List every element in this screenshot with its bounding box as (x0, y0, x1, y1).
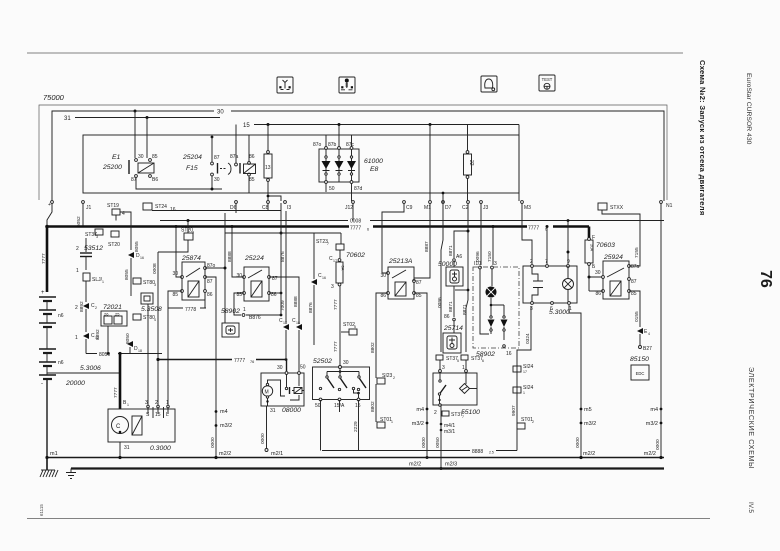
svg-text:25874: 25874 (181, 255, 201, 262)
svg-text:2: 2 (75, 305, 78, 311)
svg-text:30: 30 (214, 177, 220, 183)
svg-text:m4: m4 (650, 407, 658, 413)
svg-text:5.3006: 5.3006 (80, 365, 101, 372)
svg-text:87: 87 (631, 279, 637, 285)
svg-text:30: 30 (236, 273, 242, 279)
svg-text:87: 87 (416, 280, 422, 286)
svg-text:2: 2 (393, 376, 395, 380)
svg-text:m2/2: m2/2 (219, 451, 231, 457)
svg-text:+: + (41, 290, 45, 296)
svg-text:30: 30 (277, 365, 283, 371)
svg-text:8871: 8871 (448, 301, 454, 312)
svg-text:I3: I3 (287, 205, 291, 211)
svg-text:25: 25 (115, 312, 120, 317)
svg-text:61000: 61000 (364, 158, 383, 165)
svg-text:87o: 87o (313, 142, 322, 148)
svg-text:50: 50 (315, 403, 321, 409)
svg-text:3: 3 (331, 284, 334, 290)
svg-text:M: M (265, 390, 269, 396)
svg-text:17: 17 (283, 321, 287, 325)
svg-text:m4: m4 (416, 407, 424, 413)
svg-text:85150: 85150 (630, 356, 649, 363)
svg-text:0000: 0000 (655, 439, 661, 450)
svg-text:2.5: 2.5 (489, 451, 494, 455)
svg-text:7777: 7777 (333, 299, 339, 310)
svg-text:7777: 7777 (350, 226, 361, 232)
svg-text:0000: 0000 (210, 437, 216, 448)
svg-text:0000: 0000 (575, 437, 581, 448)
svg-text:M3: M3 (524, 205, 531, 211)
svg-text:3: 3 (154, 283, 156, 287)
svg-text:0050: 0050 (435, 437, 441, 448)
svg-text:0000: 0000 (260, 433, 266, 444)
svg-text:B27: B27 (643, 346, 652, 352)
svg-text:18: 18 (296, 321, 300, 325)
svg-text:8892: 8892 (95, 329, 101, 340)
svg-text:86: 86 (249, 154, 255, 160)
svg-text:8802: 8802 (370, 342, 376, 353)
svg-text:2: 2 (434, 410, 437, 416)
svg-text:25213A: 25213A (388, 258, 413, 265)
svg-text:16: 16 (322, 276, 326, 280)
svg-text:5A: 5A (341, 266, 346, 271)
svg-text:3: 3 (442, 365, 445, 371)
svg-text:85: 85 (152, 154, 158, 160)
svg-text:7778: 7778 (185, 307, 196, 313)
svg-text:8055: 8055 (134, 241, 140, 252)
svg-text:50: 50 (329, 186, 335, 192)
svg-text:8888: 8888 (472, 449, 483, 455)
svg-text:31: 31 (64, 116, 71, 122)
svg-text:13: 13 (265, 165, 271, 171)
svg-text:4: 4 (154, 318, 156, 322)
svg-text:7150: 7150 (487, 251, 493, 262)
svg-text:18: 18 (138, 349, 142, 353)
svg-text:20000: 20000 (65, 380, 85, 387)
svg-text:75000: 75000 (43, 93, 65, 102)
svg-text:8876: 8876 (308, 302, 314, 313)
svg-text:3: 3 (530, 306, 533, 312)
svg-text:L: L (166, 412, 169, 418)
svg-text:25924: 25924 (603, 254, 623, 261)
svg-text:2: 2 (76, 246, 79, 252)
svg-text:n6: n6 (58, 360, 64, 366)
svg-text:86: 86 (444, 314, 450, 320)
svg-text:B6: B6 (152, 177, 158, 183)
svg-text:8802: 8802 (370, 401, 376, 412)
svg-text:EuroStar CURSOR 430: EuroStar CURSOR 430 (745, 73, 752, 145)
svg-text:53512: 53512 (84, 245, 103, 252)
svg-text:9907: 9907 (511, 405, 517, 416)
svg-text:2: 2 (95, 306, 97, 310)
svg-text:0324: 0324 (525, 333, 531, 344)
svg-text:85: 85 (172, 292, 178, 298)
svg-text:87a: 87a (631, 264, 640, 270)
svg-text:17: 17 (523, 370, 527, 374)
svg-text:8050: 8050 (125, 333, 131, 344)
svg-text:A6: A6 (456, 254, 462, 260)
svg-text:ST20: ST20 (108, 242, 120, 248)
svg-text:30: 30 (380, 273, 386, 279)
svg-text:1: 1 (75, 335, 78, 341)
svg-text:70603: 70603 (596, 242, 615, 249)
svg-text:6: 6 (482, 359, 484, 363)
svg-text:85: 85 (416, 293, 422, 299)
svg-text:87: 87 (214, 155, 220, 161)
svg-text:61115: 61115 (39, 504, 44, 516)
svg-text:9: 9 (567, 259, 570, 265)
svg-text:ЭЛЕКТРИЧЕСКИЕ СХЕМЫ: ЭЛЕКТРИЧЕСКИЕ СХЕМЫ (747, 367, 756, 469)
svg-text:15: 15 (355, 403, 361, 409)
svg-text:7777: 7777 (113, 387, 119, 398)
svg-text:B876: B876 (249, 315, 261, 321)
svg-text:m2/2: m2/2 (409, 462, 421, 468)
svg-text:30: 30 (172, 271, 178, 277)
svg-text:86: 86 (207, 292, 213, 298)
svg-text:25224: 25224 (244, 255, 264, 262)
svg-text:0096: 0096 (437, 297, 443, 308)
svg-text:7009: 7009 (280, 300, 286, 311)
svg-text:16: 16 (140, 256, 144, 260)
svg-text:5: 5 (354, 325, 356, 329)
svg-text:26: 26 (104, 312, 109, 317)
svg-text:87b: 87b (328, 142, 337, 148)
svg-text:30: 30 (217, 110, 224, 116)
svg-text:08000: 08000 (282, 407, 301, 414)
svg-text:E1: E1 (112, 154, 121, 161)
svg-text:F15: F15 (186, 165, 198, 172)
svg-text:0155: 0155 (634, 311, 640, 322)
svg-text:m2/2: m2/2 (583, 451, 595, 457)
svg-text:8876: 8876 (280, 251, 286, 262)
svg-text:50: 50 (300, 365, 306, 371)
svg-text:ST24: ST24 (155, 204, 167, 210)
svg-text:8871: 8871 (448, 245, 454, 256)
svg-text:70602: 70602 (346, 252, 365, 259)
svg-text:16: 16 (170, 207, 176, 213)
svg-text:1: 1 (523, 391, 525, 395)
svg-text:0008: 0008 (152, 263, 158, 274)
svg-text:7155: 7155 (634, 247, 640, 258)
svg-text:7: 7 (545, 259, 548, 265)
svg-text:3: 3 (494, 261, 497, 267)
svg-text:76: 76 (757, 270, 774, 288)
svg-text:5.3508: 5.3508 (141, 306, 162, 313)
svg-text:1: 1 (102, 280, 104, 284)
svg-text:C9: C9 (406, 205, 413, 211)
svg-text:86: 86 (380, 293, 386, 299)
svg-text:J1: J1 (86, 205, 92, 211)
svg-text:25714: 25714 (443, 325, 463, 332)
svg-text:J3: J3 (483, 205, 489, 211)
svg-text:87a: 87a (230, 154, 239, 160)
svg-text:7: 7 (327, 242, 329, 246)
svg-text:m2/3: m2/3 (445, 462, 457, 468)
svg-text:C: C (116, 424, 121, 430)
svg-text:m3/2: m3/2 (220, 423, 232, 429)
svg-text:7777: 7777 (333, 341, 339, 352)
svg-text:85: 85 (249, 177, 255, 183)
svg-text:30: 30 (138, 154, 144, 160)
svg-text:3: 3 (96, 235, 98, 239)
svg-text:52502: 52502 (313, 358, 332, 365)
svg-text:m2/1: m2/1 (271, 451, 283, 457)
svg-text:25200: 25200 (102, 164, 122, 171)
svg-text:30: 30 (343, 360, 349, 366)
svg-text:-: - (41, 381, 43, 387)
svg-text:2: 2 (530, 259, 533, 265)
svg-text:58902: 58902 (221, 308, 240, 315)
svg-text:2: 2 (532, 420, 534, 424)
svg-text:m3/2: m3/2 (412, 421, 424, 427)
svg-text:85: 85 (631, 291, 637, 297)
svg-text:87: 87 (207, 279, 213, 285)
svg-text:Схема №2: Запуск из отсека дви: Схема №2: Запуск из отсека двигателя (698, 60, 707, 216)
svg-text:8888: 8888 (293, 296, 299, 307)
svg-text:TEST: TEST (542, 77, 553, 82)
svg-text:86: 86 (595, 291, 601, 297)
svg-text:5.3000: 5.3000 (549, 309, 570, 316)
svg-text:0000: 0000 (421, 437, 427, 448)
svg-text:7777: 7777 (528, 226, 539, 232)
svg-text:J12: J12 (345, 205, 353, 211)
svg-text:m3/1: m3/1 (444, 429, 455, 435)
svg-text:72021: 72021 (103, 304, 122, 311)
svg-text:m2/2: m2/2 (644, 451, 656, 457)
svg-text:m5: m5 (584, 407, 592, 413)
svg-text:1: 1 (76, 268, 79, 274)
svg-text:30: 30 (595, 270, 601, 276)
svg-text:0.3000: 0.3000 (150, 445, 171, 452)
svg-text:8871: 8871 (462, 304, 468, 315)
svg-text:D7: D7 (445, 205, 452, 211)
svg-text:76: 76 (250, 360, 254, 364)
svg-text:7: 7 (462, 415, 464, 419)
svg-text:1: 1 (243, 307, 246, 313)
svg-text:25204: 25204 (182, 154, 202, 161)
svg-text:1: 1 (127, 403, 129, 407)
svg-text:15: 15 (243, 123, 250, 129)
svg-text:ST19: ST19 (107, 203, 119, 209)
svg-text:6: 6 (367, 228, 369, 232)
svg-text:STXX: STXX (610, 205, 624, 211)
svg-text:5: 5 (457, 359, 459, 363)
svg-text:4: 4 (648, 332, 650, 336)
svg-text:31: 31 (124, 445, 130, 451)
svg-text:20A: 20A (590, 244, 595, 251)
svg-text:31: 31 (270, 408, 276, 414)
svg-text:22: 22 (468, 160, 474, 166)
svg-text:7777: 7777 (41, 253, 47, 264)
svg-text:7777: 7777 (234, 358, 245, 364)
svg-text:n6: n6 (58, 313, 64, 319)
svg-text:8055: 8055 (124, 269, 130, 280)
svg-text:m1: m1 (50, 451, 58, 457)
svg-text:2229: 2229 (353, 421, 359, 432)
svg-text:16: 16 (506, 351, 512, 357)
svg-text:8887: 8887 (424, 241, 430, 252)
svg-text:1: 1 (391, 420, 393, 424)
svg-text:EDC: EDC (636, 371, 645, 376)
svg-text:E8: E8 (370, 166, 379, 173)
svg-text:m3/2: m3/2 (584, 421, 596, 427)
svg-text:87d: 87d (354, 186, 363, 192)
svg-text:N1: N1 (666, 203, 673, 209)
svg-text:+: + (48, 202, 51, 208)
svg-text:IV.5: IV.5 (747, 502, 754, 513)
svg-text:m4: m4 (220, 409, 228, 415)
svg-text:m3/2: m3/2 (646, 421, 658, 427)
